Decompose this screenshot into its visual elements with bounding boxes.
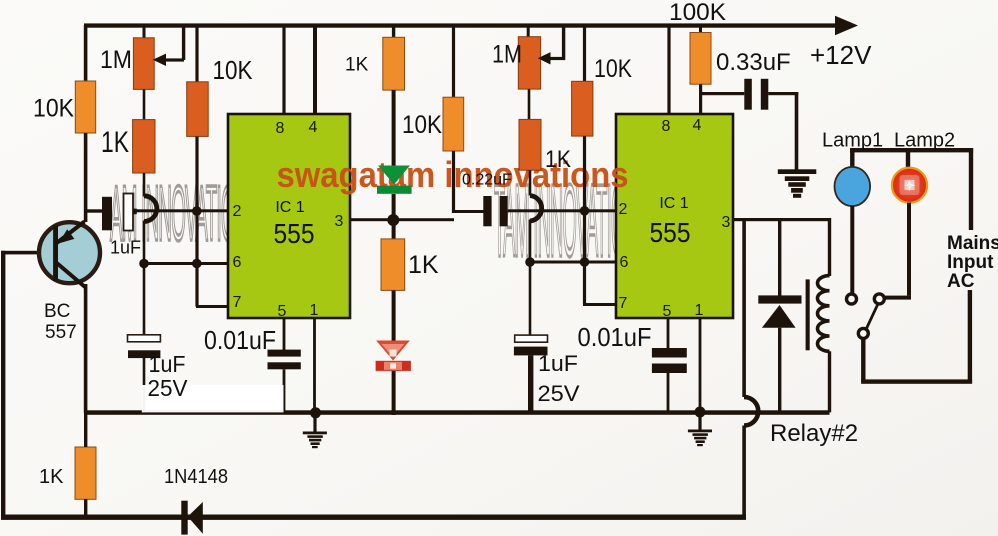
svg-text:1K: 1K <box>39 466 64 488</box>
svg-text:10K: 10K <box>594 55 632 83</box>
wire hump down to timing cap <box>143 221 146 336</box>
watermark gray 2 <box>494 163 624 279</box>
wire pin2 IC2 <box>508 209 617 212</box>
wire 10K coupling down <box>452 151 455 213</box>
wire 10K to transistor emitter <box>84 133 88 222</box>
svg-text:555: 555 <box>650 217 691 248</box>
wire IC1 pin4 <box>313 25 317 114</box>
wire pin1 IC1 to rail <box>313 318 316 413</box>
wire pot1 wiper horizontal <box>164 58 184 61</box>
wire 1K2 down to hump <box>529 170 532 195</box>
wire hump jump over pin2 wire <box>144 196 157 222</box>
resistor R 1K below node <box>381 239 405 291</box>
wire 10K mid2 top <box>583 25 586 82</box>
transistor base bar <box>53 225 58 280</box>
svg-text:1K: 1K <box>101 126 129 159</box>
node pin3 junction <box>387 214 399 226</box>
wire emitter line to cap <box>86 209 103 212</box>
wire 1K top to ground rail corner <box>84 413 87 447</box>
op-amp U2 IC2 555 box <box>616 114 733 320</box>
svg-text:6: 6 <box>233 254 242 271</box>
resistor R 10K mid1 <box>187 82 209 137</box>
wire collector down <box>84 284 88 413</box>
lamp L2 star <box>904 179 916 191</box>
capacitor C 1uF 25V no1 bottom plate <box>128 350 160 358</box>
wire 1K to green LED <box>392 90 396 167</box>
wire pin6 IC1 <box>143 262 228 265</box>
relay K2 coil top wire <box>828 218 831 276</box>
wire hump2 down to timing cap2 <box>529 220 532 336</box>
svg-text:IC 1: IC 1 <box>275 199 304 216</box>
relay K2 coil bottom wire <box>828 351 831 412</box>
svg-text:BC: BC <box>44 301 70 322</box>
resistor VR1 1M <box>133 38 154 90</box>
LED D red triangle <box>377 341 408 360</box>
svg-text:1uF: 1uF <box>149 351 186 377</box>
node ground node 2 <box>695 407 706 418</box>
resistor R 10K left <box>75 81 95 133</box>
wire pot2 wiper vertical <box>562 25 565 60</box>
wire left edge vertical <box>1 251 5 519</box>
wire 1M2 to 1K2 <box>528 89 531 119</box>
capacitor C 0.01uF no2 bottom bar <box>652 364 687 374</box>
wire 0.33uF to ground <box>768 92 798 95</box>
wire 100K to pin4 IC2 <box>699 84 702 114</box>
wire bottom rail <box>1 515 746 520</box>
resistor VR2 1M <box>518 37 540 89</box>
svg-text:2: 2 <box>233 203 242 220</box>
svg-text:1: 1 <box>695 302 704 319</box>
svg-text:7: 7 <box>619 295 628 312</box>
resistor R 1K bottom left <box>75 447 96 499</box>
wire 0.01uF no1 to rail <box>283 369 286 413</box>
wire lamp2 stub <box>906 148 910 167</box>
node junction 10K pin2 <box>192 206 202 216</box>
svg-text:1M: 1M <box>100 46 132 74</box>
resistor R 1K2 under 1M2 <box>519 119 541 170</box>
resistor R 1K led chain <box>383 37 405 90</box>
wire cap1 to ground rail <box>143 358 146 413</box>
wire lamp1 down <box>850 206 854 295</box>
wire lamp2 down <box>907 203 911 296</box>
node switch contact lamp2 <box>874 294 884 304</box>
wire 10K mid1 down to pin7 <box>195 136 198 306</box>
svg-text:555: 555 <box>274 218 315 249</box>
svg-text:7: 7 <box>233 294 242 311</box>
wire green LED to node <box>392 194 396 240</box>
wire pin7 IC2 <box>583 303 616 306</box>
svg-text:6: 6 <box>620 254 629 271</box>
svg-text:1K: 1K <box>545 146 571 173</box>
ground big symbol below 0.33uF <box>778 169 817 198</box>
LED D red bar highlight <box>390 363 396 369</box>
wire 1M2 top <box>527 25 530 38</box>
svg-text:3: 3 <box>335 213 344 230</box>
svg-text:0.01uF: 0.01uF <box>204 325 276 355</box>
wire 1K led chain top <box>392 25 395 38</box>
transistor emitter arrow <box>59 229 75 243</box>
wire lamp1 stub <box>850 148 854 168</box>
wire pole bottom horizontal <box>861 379 972 383</box>
svg-text:AC: AC <box>947 271 975 292</box>
wire pot1 wiper vertical <box>182 25 185 60</box>
wire left drop rail to 10K <box>84 25 88 81</box>
svg-text:557: 557 <box>45 322 77 343</box>
wire mains right top vertical <box>969 148 973 230</box>
svg-text:Relay#2: Relay#2 <box>770 420 858 447</box>
diode D 1N4148 bar <box>181 501 187 535</box>
lamp L2 inner square <box>900 175 920 195</box>
svg-text:Input: Input <box>947 252 994 273</box>
white label box 1uF 25V <box>142 385 284 412</box>
capacitor C 1uF 25V no2 top plate <box>515 335 548 342</box>
resistor R 1K under 1M <box>133 120 155 173</box>
LED D green triangle <box>378 166 410 185</box>
wire IC1 pin8 <box>282 25 285 114</box>
wire 0.01uF no2 to rail <box>667 373 670 413</box>
resistor R 10K mid2 <box>572 81 593 136</box>
wire red LED to ground rail <box>392 371 396 415</box>
capacitor C 0.01uF no1 top bar <box>268 350 301 357</box>
wire junction to 0.22uF <box>452 210 484 213</box>
wire pin6 IC2 <box>529 261 616 264</box>
capacitor C 1uF input black plate <box>102 197 112 231</box>
wire 10K mid2 down to pin7 <box>583 136 586 304</box>
diode D flyback wire bottom <box>778 328 781 413</box>
svg-text:5: 5 <box>663 303 672 320</box>
transistor collector line <box>55 262 85 288</box>
svg-text:0.22uF: 0.22uF <box>462 172 512 189</box>
wire pole down <box>861 338 865 382</box>
LED D red bar center <box>384 362 402 370</box>
capacitor C 1uF input white plate <box>124 194 134 231</box>
svg-text:25V: 25V <box>148 375 189 401</box>
wire top +12V rail <box>84 23 838 27</box>
wire hump2 jump over pin2 wire <box>530 196 542 222</box>
svg-text:0.01uF: 0.01uF <box>578 322 652 352</box>
capacitor C 0.01uF no1 pin5 wire <box>283 318 286 350</box>
wire 1M top <box>143 25 146 38</box>
svg-text:1K: 1K <box>408 251 439 279</box>
svg-text:Lamp2: Lamp2 <box>894 130 955 152</box>
LED D red highlight <box>390 350 397 357</box>
LED D red triangle inner <box>382 344 405 358</box>
capacitor C 1uF 25V no1 top plate <box>128 335 161 342</box>
lamp L2 red body <box>892 168 927 203</box>
pot VR2 wiper arrowhead <box>538 52 551 64</box>
LED D green bar <box>377 186 412 194</box>
capacitor C 0.01uF no1 bottom bar <box>268 362 301 369</box>
resistor R 100K <box>690 33 711 85</box>
wire pin1 IC2 to rail <box>699 318 702 412</box>
wire lamp2 elbow <box>884 296 911 300</box>
diode D flyback cathode bar <box>758 295 801 303</box>
svg-text:25V: 25V <box>538 381 580 406</box>
wire 0.33uF ground drop <box>795 92 799 170</box>
svg-text:IC 1: IC 1 <box>659 195 688 212</box>
wire 1K down to hump <box>143 173 146 197</box>
wire pot2 wiper horizontal <box>548 57 565 60</box>
svg-text:1N4148: 1N4148 <box>164 466 228 488</box>
wire pin3 IC1 <box>350 218 454 221</box>
pot VR1 wiper arrowhead <box>153 54 166 66</box>
lamp L2 highlight <box>905 180 915 190</box>
svg-text:3: 3 <box>722 214 731 231</box>
node ground node 1 <box>310 407 321 418</box>
diode D 1N4148 triangle <box>188 502 203 534</box>
+12V arrowhead <box>835 16 858 35</box>
svg-text:1uF: 1uF <box>538 351 578 376</box>
relay K2 core bar <box>806 279 810 350</box>
wire 100K top <box>699 25 702 33</box>
svg-text:1K: 1K <box>345 55 369 76</box>
node junction 10K mid2 pin6 <box>580 257 590 267</box>
svg-text:1uF: 1uF <box>110 238 141 258</box>
capacitor C 0.22uF right plate <box>500 196 508 226</box>
wire 1K to red LED <box>392 290 396 341</box>
wire base wire from left edge <box>1 251 57 255</box>
wire mains right bottom vertical <box>968 290 972 383</box>
node junction 10K pin6 <box>192 259 202 269</box>
node junction cap2 chain pin6 <box>525 257 535 267</box>
svg-text:1: 1 <box>310 302 319 319</box>
svg-text:2: 2 <box>619 201 628 218</box>
wire switch arm <box>866 304 878 330</box>
capacitor C 0.01uF no2 pin5 wire <box>667 318 670 348</box>
svg-text:4: 4 <box>693 117 702 134</box>
wire pin2 IC1 <box>135 209 228 212</box>
LED D red bar <box>376 361 411 371</box>
capacitor C 0.33uF right plate <box>761 79 769 110</box>
svg-text:1M: 1M <box>492 41 522 69</box>
svg-text:5: 5 <box>278 303 287 320</box>
wire 10K mid1 top <box>195 25 198 82</box>
svg-text:0.33uF: 0.33uF <box>716 49 791 76</box>
wire relay drop hump over rail <box>744 397 758 426</box>
svg-text:10K: 10K <box>402 111 442 139</box>
svg-text:Lamp1: Lamp1 <box>822 130 883 152</box>
capacitor C 1uF 25V no2 bottom plate <box>514 347 548 356</box>
wire 1K bottom to rail <box>84 499 87 517</box>
relay K2 coil loops <box>817 276 829 352</box>
wire IC2 pin8 <box>667 25 670 114</box>
svg-text:8: 8 <box>276 120 285 137</box>
wire ground rail <box>84 410 830 415</box>
wire junction to 0.33uF <box>700 92 744 95</box>
wire 1M to 1K <box>143 89 146 119</box>
wire pin3 IC2 <box>733 218 830 221</box>
transistor emitter line <box>56 222 85 244</box>
transistor Q1 BC557 body <box>39 222 100 283</box>
wire lamp top feed <box>850 148 973 152</box>
op-amp U1 IC1 555 box <box>228 114 350 320</box>
svg-text:Mains: Mains <box>947 233 998 254</box>
node cap stub <box>133 209 137 215</box>
watermark gray 1 <box>110 171 235 258</box>
diode D flyback triangle <box>762 305 796 328</box>
wire 10K coupling top <box>452 25 455 98</box>
node switch contact lamp1 <box>847 294 857 304</box>
diode D flyback wire top <box>778 218 781 296</box>
node junction 10K mid2 pin2 <box>580 206 590 216</box>
node junction cap chain pin6 <box>139 259 149 269</box>
capacitor C 0.22uF left plate <box>483 196 491 226</box>
svg-text:4: 4 <box>309 119 318 136</box>
svg-text:8: 8 <box>662 118 671 135</box>
wire cap2 to ground rail <box>528 355 533 412</box>
ground symbol 2 <box>688 412 712 446</box>
wire pin7 IC1 <box>196 305 228 308</box>
resistor R 10K coupling <box>443 97 464 151</box>
svg-text:100K: 100K <box>669 0 726 26</box>
svg-text:10K: 10K <box>33 95 74 123</box>
wire relay drop upper <box>742 218 746 397</box>
node switch pole <box>858 328 868 338</box>
wire relay drop lower to bottom rail <box>742 426 746 520</box>
lamp L1 blue <box>835 167 871 206</box>
capacitor C 0.01uF no2 top bar <box>652 348 687 358</box>
capacitor C 0.33uF left plate <box>744 79 752 110</box>
svg-text:+12V: +12V <box>810 40 872 70</box>
svg-text:10K: 10K <box>213 55 254 85</box>
ground symbol 1 <box>303 413 327 448</box>
